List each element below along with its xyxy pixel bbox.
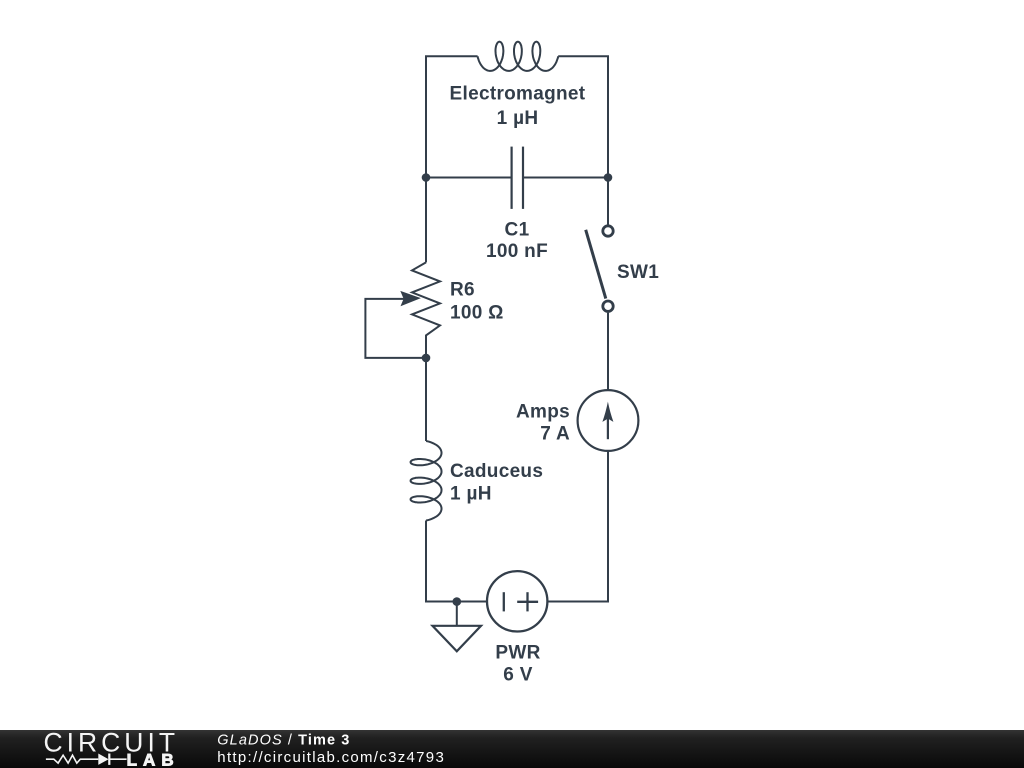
wire Caduceus to bottom-left corner to PWR minus <box>426 521 488 602</box>
logo resistor-diode doodle <box>46 755 127 763</box>
svg-text:1 µH: 1 µH <box>497 108 539 129</box>
svg-text:100 Ω: 100 Ω <box>450 303 504 324</box>
wire top-right from inductor to right rail down to node B <box>558 56 608 177</box>
svg-text:R6: R6 <box>450 279 475 300</box>
current source Amps circle <box>578 390 639 451</box>
wire SW1 bottom terminal to Amps source <box>607 313 609 391</box>
wire node A to capacitor left plate <box>426 177 512 179</box>
svg-text:Electromagnet: Electromagnet <box>450 83 586 104</box>
wire left rail node A down to R6 top <box>425 178 427 263</box>
svg-text:Caduceus: Caduceus <box>450 461 543 482</box>
logo diode bar <box>108 754 110 765</box>
inductor Caduceus 1uH <box>411 441 442 521</box>
current source Amps arrowhead <box>602 402 613 422</box>
wire capacitor right plate to node B <box>523 177 608 179</box>
logo diode triangle <box>98 754 108 765</box>
wire Amps source to bottom-right corner to PWR plus <box>547 451 608 602</box>
R6 wiper arrow wire loop <box>365 299 426 358</box>
R6 wiper arrowhead <box>400 291 421 306</box>
voltage source PWR circle <box>487 571 547 631</box>
ground symbol triangle <box>433 626 482 652</box>
PWR minus terminal bar <box>503 592 505 611</box>
svg-text:Amps: Amps <box>516 402 570 423</box>
inductor Electromagnet 1uH <box>478 42 559 71</box>
svg-text:http://circuitlab.com/c3z4793: http://circuitlab.com/c3z4793 <box>217 749 445 766</box>
svg-text:SW1: SW1 <box>617 262 659 283</box>
wire node B down to SW1 top terminal <box>607 178 609 225</box>
resistor R6 zigzag body <box>412 262 440 358</box>
switch SW1 top terminal circle <box>603 226 613 236</box>
switch SW1 bottom terminal circle <box>603 301 613 311</box>
svg-text:PWR: PWR <box>495 643 540 664</box>
svg-text:6 V: 6 V <box>503 665 532 686</box>
PWR plus sign <box>517 592 538 611</box>
svg-text:7 A: 7 A <box>540 424 570 445</box>
svg-text:C1: C1 <box>505 220 530 241</box>
svg-text:100 nF: 100 nF <box>486 241 548 262</box>
svg-text:LAB: LAB <box>127 751 174 768</box>
current source Amps arrow tail <box>607 414 609 439</box>
wire node C down to Caduceus coil <box>425 358 427 441</box>
capacitor C1 plates <box>512 147 523 209</box>
switch SW1 lever <box>586 230 606 299</box>
node A junction dot <box>422 173 431 182</box>
ground junction dot <box>453 597 462 606</box>
node B junction dot <box>604 173 613 182</box>
node C junction dot (R6 bottom) <box>422 354 431 363</box>
footer bar background <box>0 730 1024 768</box>
wire top-left from inductor to left rail down to node A <box>426 56 478 177</box>
ground stub wire <box>456 602 458 626</box>
svg-text:GLaDOS / Time 3: GLaDOS / Time 3 <box>217 733 350 749</box>
svg-text:1 µH: 1 µH <box>450 484 492 505</box>
